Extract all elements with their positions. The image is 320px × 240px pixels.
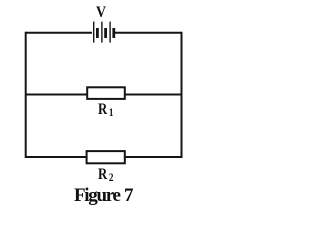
battery V: cell 2 long plate: [101, 22, 103, 43]
wire: right vertical: [181, 32, 183, 158]
battery V: cell 3 short thick plate: [112, 28, 115, 38]
resistor R1 body: [87, 87, 125, 99]
label R2: [98, 166, 113, 184]
wire: left vertical: [25, 32, 27, 158]
wire: middle branch (R1 branch): [25, 94, 182, 96]
wire: top-right segment (battery right lead): [115, 32, 182, 34]
resistor R2 body: [87, 151, 125, 163]
wire: bottom branch (R2 branch): [25, 156, 182, 158]
caption Figure 7: [74, 185, 120, 207]
battery V: cell 2 short thick plate: [104, 28, 107, 38]
battery V: cell 1 long plate: [93, 22, 95, 43]
battery V: cell 1 short thick plate: [96, 28, 99, 38]
label V (battery voltage): [96, 4, 106, 22]
battery V: cell 3 long plate: [109, 22, 111, 43]
wire: top-left segment (battery left lead): [26, 32, 92, 34]
label R1: [98, 101, 113, 119]
